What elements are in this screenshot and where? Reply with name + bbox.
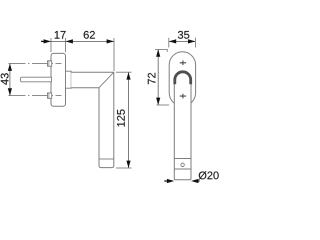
bottom screw centre line (dash-dot) xyxy=(9,95,62,97)
dimension 125 extension line top xyxy=(116,71,132,73)
dimension 62 dim line xyxy=(66,40,115,42)
dimension 17 dim line xyxy=(41,40,66,42)
dimension 35 extension line left xyxy=(168,38,170,48)
dimension diameter-20 dim line right xyxy=(197,180,200,182)
dimension 62 left arrow xyxy=(66,39,73,43)
dimension 43 label xyxy=(1,73,9,85)
spindle (square bar, side view) xyxy=(20,77,51,82)
dimension 62 label xyxy=(84,31,95,39)
dimension 72 bottom arrow xyxy=(156,98,160,105)
dimension 35 label xyxy=(178,31,189,39)
dimension 125 label xyxy=(117,110,125,127)
dimension diameter-20 dim line left xyxy=(164,180,168,182)
dimension 43 bottom arrow xyxy=(8,88,12,95)
top screw centre line (dash-dot) xyxy=(9,63,62,65)
handle end-cap joint line (side view) xyxy=(99,158,114,160)
dimension 72 extension line top xyxy=(155,49,167,52)
handle neck (side view) xyxy=(66,71,72,88)
dimension 43 dim line xyxy=(9,64,11,96)
dimension 35 extension line right xyxy=(194,38,196,48)
dimension diameter-20 right arrow xyxy=(191,179,198,183)
grip end-cap joint line top (front view) xyxy=(174,158,191,160)
dimension 125 bottom arrow xyxy=(126,161,130,168)
dimension 35 right arrow xyxy=(188,39,195,43)
dimension diameter-20 left arrow xyxy=(167,179,174,183)
dimension 72 extension line bottom xyxy=(157,104,170,106)
dimension 62 extension line right xyxy=(113,38,115,71)
dimension 72 dim line xyxy=(157,49,159,105)
dimension 43 top arrow xyxy=(8,64,12,71)
dimension 125 extension line bottom xyxy=(116,167,132,169)
dimension 125 top arrow xyxy=(126,72,130,79)
grip end-cap joint line bottom (front view) xyxy=(174,168,191,170)
rosette plate (side view) xyxy=(51,53,66,106)
dimension 17 extension line left xyxy=(50,38,52,52)
dimension 72 label xyxy=(148,73,156,84)
bottom fixing screw (side view) xyxy=(48,93,52,98)
dimension diameter-20 label xyxy=(199,171,219,179)
bottom screw cross mark xyxy=(180,94,186,99)
handle arm and grip outline (side view) xyxy=(71,72,114,167)
top fixing screw (side view) xyxy=(48,61,52,66)
rosette (front view, stadium shape) xyxy=(169,52,195,106)
dimension 17 label xyxy=(55,31,66,39)
top screw cross mark xyxy=(180,61,186,66)
grip screw hole circle xyxy=(181,163,184,166)
neck ring arc (front view) xyxy=(175,72,191,85)
grip (front view) xyxy=(174,80,191,180)
dimension 17 left arrow xyxy=(41,40,45,42)
dimension 17 extension line right xyxy=(65,38,67,52)
dimension 72 top arrow xyxy=(156,49,160,56)
handle miter seam (side view) xyxy=(99,72,114,88)
dimension 125 dim line xyxy=(128,72,130,168)
dimension 35 dim line xyxy=(169,40,196,42)
dimension 62 right arrow xyxy=(107,39,114,43)
dimension 35 left arrow xyxy=(169,39,176,43)
